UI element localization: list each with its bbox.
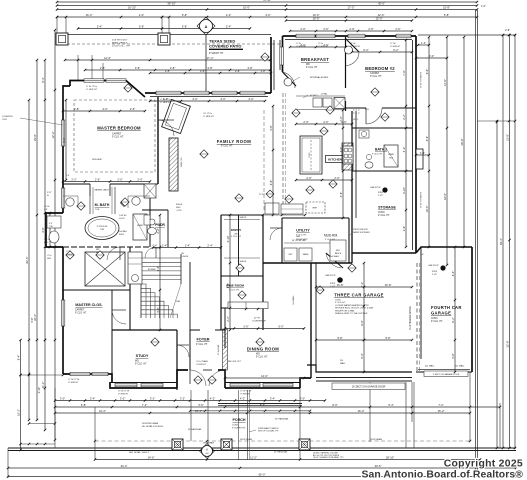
svg-text:FOURTH CAR: FOURTH CAR (431, 305, 462, 310)
svg-text:4'-8": 4'-8" (339, 192, 343, 197)
barrel vault niche (89, 187, 91, 214)
kitchen range (342, 143, 353, 170)
svg-text:10'-4": 10'-4" (425, 206, 429, 213)
svg-text:2'-10": 2'-10" (38, 387, 41, 393)
svg-text:10'-6": 10'-6" (243, 5, 250, 9)
svg-text:MED CLG: MED CLG (181, 157, 183, 167)
garage door text 4th (424, 371, 468, 377)
svg-text:14'-0": 14'-0" (261, 374, 268, 378)
svg-text:8'-9": 8'-9" (425, 136, 429, 141)
svg-text:#7 Fx TRANS.: #7 Fx TRANS. (196, 360, 209, 363)
svg-text:2'-8": 2'-8" (44, 209, 48, 211)
svg-text:WD: WD (256, 354, 260, 356)
svg-text:REF. DETAIL "H/N-5.6": REF. DETAIL "H/N-5.6" (129, 451, 150, 454)
mud top wall (324, 217, 349, 219)
mud rm right wall (348, 218, 350, 263)
svg-text:CONC: CONC (431, 318, 438, 320)
svg-text:2 1/2": 2 1/2" (378, 195, 383, 197)
study left wall jog (111, 330, 113, 374)
svg-text:2'-2": 2'-2" (71, 177, 76, 181)
window tags (77, 202, 85, 210)
svg-text:32'-6": 32'-6" (505, 341, 509, 348)
dimension row breakfast top (290, 30, 412, 32)
svg-text:1'-8": 1'-8" (260, 69, 265, 73)
svg-text:2'-6": 2'-6" (243, 324, 248, 328)
svg-text:COUNTERTOP: COUNTERTOP (252, 321, 267, 323)
svg-text:#7 Fx: #7 Fx (47, 255, 52, 257)
svg-text:16'-10": 16'-10" (128, 5, 136, 9)
car stop garage3 (337, 277, 343, 283)
svg-text:5 SHLVS: 5 SHLVS (238, 261, 247, 263)
dimension line top second (57, 5, 477, 7)
svg-text:11'-2": 11'-2" (41, 382, 45, 389)
kitchen sink counter (296, 95, 345, 97)
svg-text:6'-6": 6'-6" (269, 180, 273, 185)
svg-text:6'-2": 6'-2" (451, 317, 455, 322)
svg-text:4'-10": 4'-10" (226, 236, 230, 243)
svg-text:12'-6": 12'-6" (443, 79, 447, 86)
svg-text:25'-6": 25'-6" (33, 134, 37, 141)
svg-text:3'-8": 3'-8" (200, 69, 205, 73)
svg-text:12'-3": 12'-3" (51, 132, 55, 139)
svg-text:2'-2": 2'-2" (226, 316, 230, 321)
svg-text:9' SECT OH GARAGE DOOR: 9' SECT OH GARAGE DOOR (433, 373, 460, 376)
master closet bottom wall (63, 374, 112, 382)
patio dim line 2 (85, 69, 270, 71)
svg-text:6'-3": 6'-3" (41, 77, 45, 82)
svg-text:4'-0": 4'-0" (220, 97, 225, 101)
svg-text:31'-8": 31'-8" (505, 134, 509, 141)
garage door sill 3car (316, 377, 412, 379)
svg-text:42" HT: 42" HT (254, 318, 261, 320)
breakfast door arc (283, 72, 296, 88)
svg-text:2'-0": 2'-0" (339, 116, 343, 121)
svg-text:3'-4": 3'-4" (90, 396, 95, 400)
svg-text:CON: CON (2, 119, 7, 121)
svg-text:2'-6": 2'-6" (395, 27, 400, 31)
foyer entry wall right (218, 370, 225, 388)
svg-text:W.H.: W.H. (365, 109, 370, 111)
lin closet (144, 184, 156, 198)
svg-text:4'-6": 4'-6" (265, 13, 270, 17)
dimension line left outer (28, 100, 30, 420)
foyer top walls (190, 329, 200, 331)
svg-text:2'-0": 2'-0" (117, 177, 122, 181)
svg-text:3'-10": 3'-10" (402, 187, 406, 194)
svg-text:TUB: TUB (100, 229, 105, 231)
svg-text:28'-10": 28'-10" (386, 455, 394, 459)
svg-text:3'-8": 3'-8" (402, 226, 406, 231)
svg-text:WDW SEAT: WDW SEAT (92, 158, 103, 161)
svg-text:9' CLG. HT.: 9' CLG. HT. (135, 363, 147, 365)
svg-text:1/2" GL: 1/2" GL (44, 239, 50, 241)
kitchen dim row (296, 123, 352, 125)
svg-text:CONC: CONC (378, 212, 385, 214)
svg-text:5'-8": 5'-8" (139, 24, 144, 28)
svg-text:UTILITY: UTILITY (296, 229, 310, 233)
fourth garage bottom sill (416, 371, 472, 373)
svg-text:9' CLG. HT.: 9' CLG. HT. (196, 344, 208, 346)
svg-text:THREE CAR GARAGE: THREE CAR GARAGE (334, 293, 384, 298)
svg-text:BREAKFAST: BREAKFAST (301, 57, 329, 62)
driveway vertical a (405, 382, 407, 448)
svg-text:#7 HDR HT: #7 HDR HT (86, 89, 97, 91)
svg-text:COVERED PATIO: COVERED PATIO (209, 44, 242, 49)
dim vertical porch center (207, 390, 209, 445)
dimension line bottom 3 (55, 412, 470, 414)
svg-text:4'-0": 4'-0" (339, 147, 343, 152)
svg-text:4'-0": 4'-0" (163, 97, 168, 101)
svg-text:REF CEIL OPT: REF CEIL OPT (228, 361, 242, 363)
master bay diagonal wall (126, 81, 145, 98)
svg-text:SHWR: SHWR (137, 225, 143, 227)
closet right wall (111, 290, 113, 330)
car stop garage4 (440, 265, 445, 270)
svg-text:16'-8": 16'-8" (385, 283, 392, 287)
svg-text:5'-4": 5'-4" (388, 403, 393, 407)
svg-text:DROP BEAM: DROP BEAM (240, 438, 252, 441)
pantry top wall (221, 214, 263, 216)
svg-text:6' DROP-IN: 6' DROP-IN (97, 226, 108, 228)
bath2 window box (416, 149, 423, 169)
svg-text:2'-8": 2'-8" (100, 66, 105, 70)
utility counter (330, 240, 346, 261)
svg-text:A: A (206, 448, 208, 452)
pwdr fixtures (148, 228, 157, 235)
svg-text:#7 HDR: #7 HDR (66, 254, 73, 256)
dim ext left upper (77, 55, 79, 80)
svg-text:6'-2": 6'-2" (393, 48, 398, 52)
svg-text:CAR STOP: CAR STOP (428, 264, 439, 267)
svg-text:PRE-PLUMB FOR: PRE-PLUMB FOR (353, 229, 368, 231)
master bedroom windows (84, 79, 104, 82)
svg-text:CAR STOP: CAR STOP (370, 186, 381, 189)
svg-text:3'-8": 3'-8" (170, 66, 175, 70)
svg-text:MASTER BEDROOM: MASTER BEDROOM (97, 126, 141, 131)
dimension line bottom 2 (55, 406, 500, 408)
svg-text:LOCATION: LOCATION (2, 115, 13, 118)
svg-text:TILE: TILE (95, 209, 100, 211)
svg-text:1'-4": 1'-4" (421, 41, 426, 45)
three car garage bottom wall (307, 365, 412, 372)
svg-text:CARPET: CARPET (112, 133, 122, 136)
svg-text:BR SEAT: BR SEAT (148, 268, 156, 271)
svg-text:#7 HDR HT: #7 HDR HT (350, 46, 361, 48)
m.bath bottom wall (63, 246, 150, 248)
tilted cabinet (162, 99, 191, 133)
svg-text:#7 HDR HT: #7 HDR HT (240, 393, 251, 395)
svg-text:#7 5H #7 5H: #7 5H #7 5H (240, 391, 252, 393)
svg-text:2'-0": 2'-0" (137, 177, 142, 181)
svg-text:STEP: STEP (432, 271, 438, 273)
closet hall dresser (128, 252, 142, 284)
breakfast diagonal door wall (283, 72, 297, 86)
dimension row bedroom2 top (286, 20, 412, 22)
marker circle A (200, 20, 213, 33)
family room windows (156, 91, 181, 95)
svg-text:3'-0": 3'-0" (300, 396, 305, 400)
dimension line bottom 6 (8, 467, 516, 469)
dimension line top overall (57, 1, 477, 3)
dim vertical bottom b (299, 388, 301, 460)
tub bay fixtures (47, 216, 61, 228)
storage left wall (351, 171, 353, 263)
svg-text:3'-0": 3'-0" (60, 396, 65, 400)
utility washer dryer (284, 248, 297, 261)
svg-text:4'-2": 4'-2" (226, 13, 231, 17)
closet left window (61, 300, 64, 326)
svg-text:16R: 16R (176, 301, 180, 303)
svg-text:DINING ROOM: DINING ROOM (247, 347, 279, 352)
svg-text:PORCH: PORCH (233, 418, 246, 422)
left connector 375 (21, 374, 64, 376)
svg-text:BEAR w/BRICK: BEAR w/BRICK (112, 41, 128, 44)
svg-text:CONC: CONC (335, 300, 342, 302)
svg-text:9' CLG. HT.: 9' CLG. HT. (229, 290, 240, 292)
dimension line far right 3 (509, 35, 511, 448)
kitchen east wall (351, 111, 353, 171)
svg-text:2'-2": 2'-2" (402, 114, 406, 119)
svg-text:9' CLG. HT.: 9' CLG. HT. (335, 302, 346, 304)
svg-text:BATH 2: BATH 2 (375, 148, 387, 152)
svg-text:5'-8": 5'-8" (182, 24, 187, 28)
svg-text:36" HANDRAIL: 36" HANDRAIL (274, 451, 288, 454)
svg-text:KITCHEN: KITCHEN (328, 158, 343, 162)
bath2 fixtures (365, 162, 373, 168)
svg-text:4'-0": 4'-0" (248, 97, 253, 101)
foyer entry wall left (177, 370, 188, 388)
dim vertical bottom a (94, 407, 96, 460)
garage door text 3car (332, 383, 405, 390)
svg-text:BEDROOM #2: BEDROOM #2 (365, 66, 395, 71)
svg-text:WASH: WASH (303, 253, 309, 256)
dining left wall lower (224, 308, 226, 330)
driveway vertical b (413, 382, 415, 448)
svg-text:12'-6": 12'-6" (378, 13, 385, 17)
svg-text:16'-8": 16'-8" (337, 283, 344, 287)
porch column right (299, 439, 310, 450)
svg-text:3'-8": 3'-8" (165, 69, 170, 73)
svg-text:8'-0": 8'-0" (332, 403, 337, 407)
svg-text:WALL: WALL (340, 362, 346, 365)
svg-text:3'-8": 3'-8" (235, 69, 240, 73)
svg-text:7'-2": 7'-2" (360, 282, 364, 287)
svg-text:2'-6": 2'-6" (306, 176, 311, 180)
svg-text:#7 5H #7 5H: #7 5H #7 5H (118, 391, 130, 393)
svg-text:3'-0": 3'-0" (429, 54, 434, 58)
svg-text:2'-4": 2'-4" (207, 243, 212, 247)
svg-text:2'-6": 2'-6" (95, 177, 100, 181)
svg-text:DROP BEAM: DROP BEAM (370, 438, 382, 441)
master left wall upper (63, 86, 70, 213)
svg-text:2'-6": 2'-6" (334, 176, 339, 180)
patio roof line (57, 34, 271, 36)
svg-text:#7 HDR HT: #7 HDR HT (118, 393, 129, 395)
dimension line far right 4 (514, 35, 516, 448)
svg-text:BARREL VAULT: BARREL VAULT (95, 189, 110, 192)
svg-text:#7 HDR HT: #7 HDR HT (203, 116, 214, 118)
kitchen dim row 2 (296, 179, 352, 181)
dim vertical bottom e (411, 382, 413, 422)
svg-text:5'-8": 5'-8" (182, 13, 187, 17)
svg-text:15'-2": 15'-2" (438, 409, 445, 413)
bedroom2 west wall (345, 37, 347, 88)
svg-text:1'-6": 1'-6" (420, 254, 424, 256)
study right wall (176, 330, 178, 390)
storage bottom wall (352, 252, 416, 254)
svg-text:9' CLG. HT.: 9' CLG. HT. (231, 236, 242, 238)
dimension row patio posts (78, 28, 250, 30)
svg-text:12'-0": 12'-0" (376, 16, 383, 20)
m bath left window (61, 188, 64, 208)
svg-text:3'-8": 3'-8" (135, 66, 140, 70)
bath2 shower (384, 145, 398, 167)
study windows (115, 383, 137, 386)
svg-text:2'-8": 2'-8" (505, 29, 510, 32)
svg-text:65'-0": 65'-0" (259, 472, 266, 476)
dim vertical bottom d (469, 372, 471, 442)
master bath tub (85, 217, 119, 240)
svg-text:9' CLG. HT.: 9' CLG. HT. (75, 312, 87, 314)
svg-text:2'-8": 2'-8" (74, 107, 79, 111)
svg-text:8'-4": 8'-4" (451, 271, 455, 276)
mud garage diagonal door (326, 253, 343, 268)
breakfast left wall (282, 36, 284, 72)
svg-text:10'-2": 10'-2" (16, 409, 20, 416)
staircase (141, 257, 181, 259)
svg-text:2'-6": 2'-6" (300, 43, 305, 47)
study bottom wall (110, 382, 177, 388)
svg-text:4'-6": 4'-6" (41, 227, 45, 232)
svg-text:6'-8": 6'-8" (81, 403, 86, 407)
svg-text:#7 SH: #7 SH (66, 251, 72, 253)
family room top wall (145, 92, 271, 94)
porch column mid (221, 439, 232, 450)
kitchen label box (326, 156, 345, 163)
fourth garage top wall (416, 247, 472, 253)
foyer left wall (189, 330, 191, 370)
dimension line bottom drop beam (95, 440, 470, 442)
garage dashed header (416, 263, 418, 372)
dimension line left third (44, 60, 46, 430)
svg-text:PROVIDE ELEC OUTLET, LIGHT & G: PROVIDE ELEC OUTLET, LIGHT & GAS (335, 307, 374, 310)
dining dim row top (225, 328, 304, 330)
dining right corner wall (300, 378, 311, 388)
dimension line far right 2 (502, 35, 504, 448)
master bath vanity left (66, 198, 74, 206)
svg-text:9'-8": 9'-8" (385, 336, 390, 340)
utility mud bottom wall (263, 262, 352, 264)
right exterior wall (415, 36, 417, 253)
svg-text:3'-8": 3'-8" (207, 66, 212, 70)
svg-text:2'-6": 2'-6" (323, 43, 328, 47)
right margin connector (477, 120, 515, 122)
garage firewall left (310, 263, 312, 378)
porch roof edge (218, 403, 302, 405)
svg-text:2x6 WALL: 2x6 WALL (330, 255, 340, 258)
svg-text:30'-6": 30'-6" (375, 464, 382, 468)
master left window (61, 120, 64, 146)
svg-text:#7 5H: #7 5H (350, 43, 356, 45)
svg-text:3'-2": 3'-2" (150, 396, 155, 400)
kitchen west dashed ceiling (282, 93, 284, 215)
svg-text:CO #7 Fx: CO #7 Fx (203, 113, 213, 115)
dimension line top third (57, 9, 477, 11)
svg-text:4'-8": 4'-8" (451, 353, 455, 358)
closet X box (85, 252, 125, 286)
master bedroom south wall (63, 183, 90, 185)
svg-text:2'-6": 2'-6" (66, 175, 70, 177)
svg-text:2'-6": 2'-6" (303, 120, 308, 124)
svg-text:78'-10": 78'-10" (263, 0, 271, 2)
breakfast/bedroom2 top wall (283, 35, 417, 37)
fourth garage right wall (471, 247, 473, 372)
garage dim row inside (316, 286, 412, 288)
svg-text:9' CLG. HT.: 9' CLG. HT. (325, 239, 336, 241)
svg-text:2'-6": 2'-6" (300, 27, 305, 31)
pantry right wall (262, 215, 264, 330)
closet hall walls (129, 247, 131, 330)
hall wall extension (189, 262, 191, 300)
svg-text:9' SOFFIT HT.: 9' SOFFIT HT. (232, 427, 246, 429)
svg-text:ON 24" SQUARE STONE BASE, TYP.: ON 24" SQUARE STONE BASE, TYP. (313, 456, 344, 459)
closet top wall (63, 289, 130, 291)
svg-text:10'-0": 10'-0" (313, 16, 320, 20)
wine room walls (221, 275, 263, 277)
svg-text:A: A (205, 24, 208, 29)
dining west hatch (223, 329, 228, 370)
door arc study (177, 344, 189, 346)
dimension line right tall double (475, 10, 477, 470)
master bath vanity right (132, 197, 140, 205)
dimension line right a (428, 37, 430, 247)
breakfast left window (280, 47, 284, 65)
svg-text:4'-0": 4'-0" (139, 13, 144, 17)
bath2 bottom wall (352, 170, 412, 172)
svg-text:M. BATH: M. BATH (95, 203, 110, 207)
svg-text:5'-4": 5'-4" (97, 24, 102, 28)
dining windows (230, 383, 260, 386)
dimension line left fourth (54, 30, 56, 440)
svg-text:WD: WD (135, 361, 139, 363)
svg-text:2x12 HEADER ABOVE: 2x12 HEADER ABOVE (409, 306, 412, 330)
fourth garage dim col (454, 247, 456, 372)
svg-text:16'-2": 16'-2" (99, 409, 106, 413)
svg-text:#7 HDR HT: #7 HDR HT (68, 382, 79, 384)
pantry middle wall (238, 215, 240, 276)
porch detail diamond (202, 446, 213, 457)
svg-text:#7 Fx: #7 Fx (318, 43, 323, 45)
dining bottom wall (225, 387, 300, 389)
svg-text:11'-2": 11'-2" (250, 455, 257, 459)
dim vertical bottom c (369, 382, 371, 442)
svg-text:2'-6": 2'-6" (368, 27, 373, 31)
bedroom2 door arc (365, 108, 367, 124)
svg-text:16'-0": 16'-0" (358, 409, 365, 413)
svg-text:9' CLG. HT.: 9' CLG. HT. (256, 356, 268, 358)
utility top wall (282, 217, 324, 219)
dimension line left fifth (20, 340, 22, 450)
fourth garage left wall partial (420, 247, 422, 359)
svg-text:3'-4": 3'-4" (270, 396, 275, 400)
svg-text:MUD: MUD (336, 250, 341, 252)
svg-text:18'-6": 18'-6" (443, 193, 447, 200)
svg-text:#7 HDR HT: #7 HDR HT (390, 46, 401, 48)
svg-text:STUDY: STUDY (136, 354, 149, 358)
dimension line right c (463, 37, 465, 247)
master bath tub bay wall (46, 213, 63, 247)
svg-text:5'-6": 5'-6" (198, 403, 203, 407)
